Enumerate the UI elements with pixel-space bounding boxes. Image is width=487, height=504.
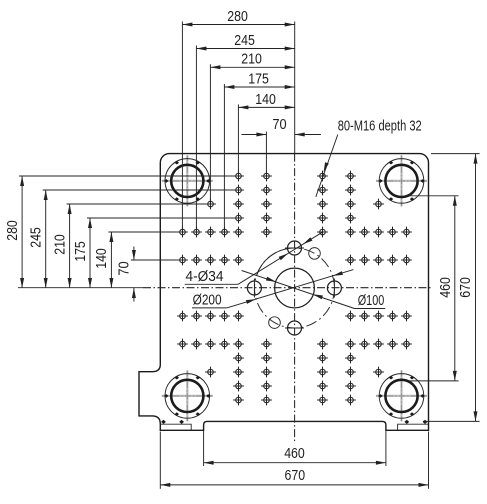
svg-text:175: 175 [72,241,89,262]
svg-text:140: 140 [93,248,110,269]
dimension 460 (right) [409,195,459,197]
extension line col 70 [265,132,267,177]
extension line [43,189,239,191]
extension line [67,203,211,205]
svg-text:70: 70 [272,116,286,133]
extension line [19,175,238,177]
tie-bar hole TL [162,155,213,206]
center extension line (top) [294,22,296,154]
svg-text:245: 245 [234,32,255,49]
dimension 245 (left) [45,190,47,288]
right foot inner step [398,424,429,430]
svg-text:210: 210 [51,234,68,255]
dimension 460 (bottom) [203,431,205,466]
svg-text:280: 280 [227,8,248,25]
foot clamp marks [161,420,166,424]
tie-bar hole TR [376,155,427,206]
svg-text:140: 140 [255,91,276,108]
svg-text:460: 460 [284,445,305,462]
svg-text:Ø200: Ø200 [193,291,222,308]
svg-text:460: 460 [437,277,454,298]
extension line [223,84,225,232]
dimension 210 (left) [69,204,71,288]
svg-text:280: 280 [4,220,21,241]
extension line [209,64,211,204]
svg-text:4-Ø34: 4-Ø34 [186,268,224,285]
dimension 175 (top) [224,86,294,88]
extension line [195,46,197,233]
dimension 670 (bottom) [159,432,161,489]
extension line row 70 [131,259,183,261]
dimension 210 (top) [210,66,294,68]
plate outline with corner feet and left ear [139,154,429,431]
svg-text:80-M16 depth 32: 80-M16 depth 32 [338,118,422,135]
dimension 245 (top) [196,48,294,50]
4x dia34 holes [288,241,302,255]
extension line [108,231,182,233]
extension line [87,217,238,219]
extension line [237,104,239,176]
svg-text:70: 70 [116,261,133,275]
svg-text:245: 245 [28,227,45,248]
vertical centerline [294,154,296,442]
dimension 670 (right) [431,153,480,155]
left foot inner step [160,424,191,430]
dimension 140 (top) [238,106,294,108]
bolt circle dia 200 (dashed) [255,248,335,328]
bolt circle long dash (upper-left arc) [257,248,290,275]
dimension 280 (left) [21,176,23,288]
svg-text:175: 175 [248,70,269,87]
80x M16 threaded hole grid [177,171,412,406]
dimension 70 (top) [242,134,267,136]
2 plain holes on bolt circle at 60/240 deg [309,248,321,260]
horizontal centerline [18,287,143,289]
dimension 70 (left) [133,247,135,261]
central locating hole dia 100 [275,268,315,308]
dimension 175 (left) [89,218,91,288]
svg-text:Ø100: Ø100 [358,292,385,309]
tie-bar hole BR [376,370,427,421]
svg-text:670: 670 [457,277,474,298]
dimension 140 (left) [110,232,112,288]
tie-bar hole BL [162,370,213,421]
dimension 280 (top) [182,24,294,26]
svg-text:670: 670 [285,467,306,484]
extension line [181,22,183,233]
svg-text:210: 210 [241,51,262,68]
